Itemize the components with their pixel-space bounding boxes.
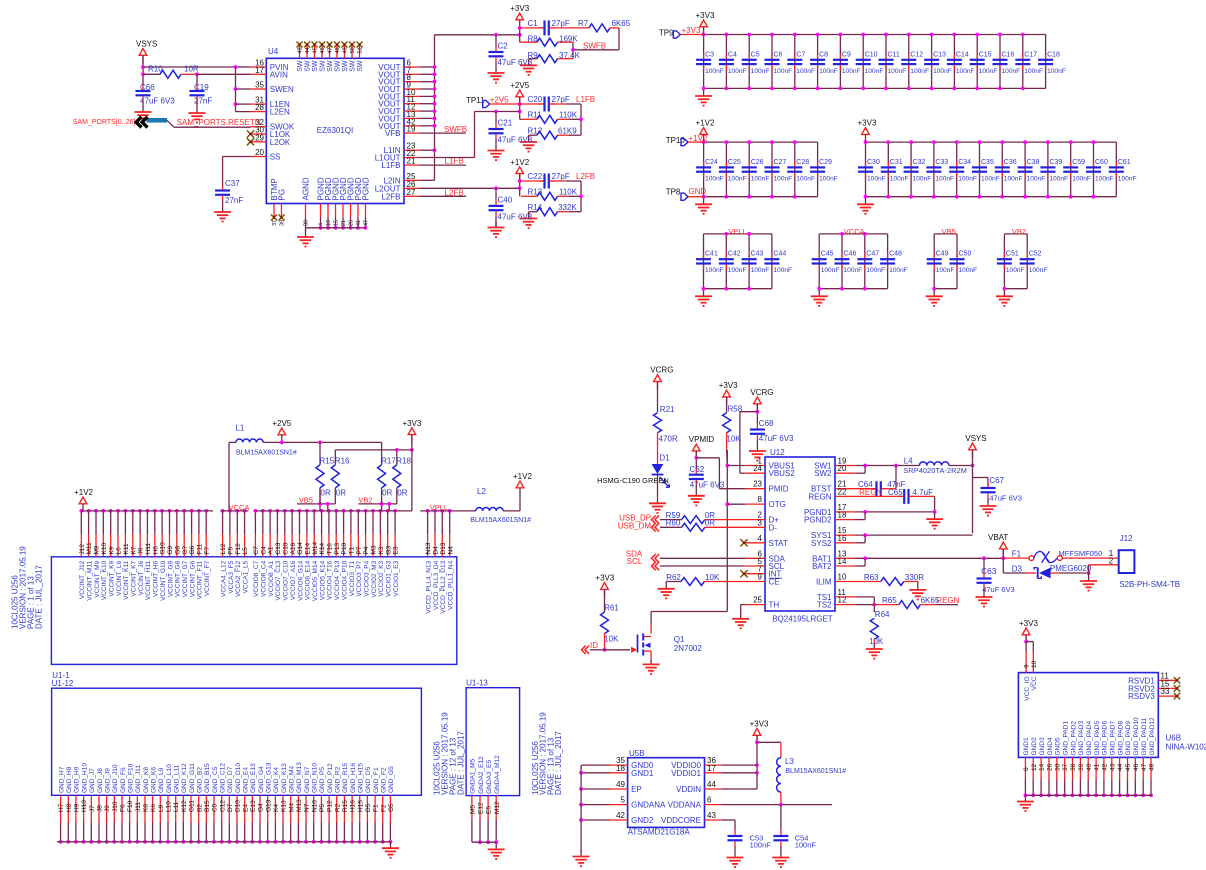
svg-text:C5: C5 xyxy=(212,803,219,812)
svg-text:L5: L5 xyxy=(242,547,249,555)
svg-text:BLM15AX601SN1#: BLM15AX601SN1# xyxy=(470,517,531,524)
svg-text:VFB: VFB xyxy=(385,129,401,138)
svg-text:GND_J7: GND_J7 xyxy=(89,768,96,793)
svg-text:BQ24195LRGET: BQ24195LRGET xyxy=(772,615,833,624)
svg-text:50: 50 xyxy=(350,47,356,53)
svg-text:C21: C21 xyxy=(498,119,513,128)
svg-text:C11: C11 xyxy=(888,51,900,58)
svg-text:47: 47 xyxy=(328,47,334,53)
svg-text:VCC: VCC xyxy=(1031,676,1038,690)
svg-text:SWEN: SWEN xyxy=(270,85,294,94)
svg-text:K8: K8 xyxy=(143,804,150,812)
svg-text:0R: 0R xyxy=(705,519,715,528)
svg-text:SAM_PORTS.RESETN: SAM_PORTS.RESETN xyxy=(177,118,261,127)
svg-text:F5: F5 xyxy=(228,547,235,555)
svg-text:VCRG: VCRG xyxy=(650,366,673,375)
svg-text:GND_F1: GND_F1 xyxy=(373,767,380,793)
svg-text:SW: SW xyxy=(342,60,349,72)
svg-text:ID: ID xyxy=(590,641,598,650)
svg-text:47uF 6V3: 47uF 6V3 xyxy=(759,434,794,443)
svg-text:GND_M4: GND_M4 xyxy=(289,766,296,793)
svg-text:45: 45 xyxy=(313,47,319,53)
svg-text:18: 18 xyxy=(616,764,625,773)
svg-text:48: 48 xyxy=(335,47,341,53)
svg-text:C25: C25 xyxy=(728,159,741,166)
svg-text:GND_K4: GND_K4 xyxy=(273,767,280,793)
svg-text:100nF: 100nF xyxy=(751,267,770,274)
svg-text:+1V2: +1V2 xyxy=(74,488,93,497)
svg-text:VCCA2_F12: VCCA2_F12 xyxy=(235,560,242,597)
svg-text:T16: T16 xyxy=(327,543,334,555)
svg-text:100nF: 100nF xyxy=(751,68,770,75)
svg-text:C31: C31 xyxy=(890,159,903,166)
svg-text:VCCINT_K10: VCCINT_K10 xyxy=(101,560,108,600)
svg-text:GND_D5: GND_D5 xyxy=(365,766,372,793)
svg-text:GND_PAD6: GND_PAD6 xyxy=(1102,721,1109,756)
svg-text:SW: SW xyxy=(350,60,357,72)
svg-text:SW: SW xyxy=(297,60,304,72)
svg-text:C37: C37 xyxy=(225,179,240,188)
svg-text:B2: B2 xyxy=(196,804,203,812)
svg-text:GND_H16: GND_H16 xyxy=(350,763,357,793)
svg-text:VCCIO3_P7: VCCIO3_P7 xyxy=(356,560,363,596)
svg-text:28: 28 xyxy=(255,103,264,112)
svg-text:R15: R15 xyxy=(342,800,349,812)
svg-text:VPMID: VPMID xyxy=(689,435,715,444)
svg-text:VCCIO4_P10: VCCIO4_P10 xyxy=(341,560,348,600)
svg-text:L1FB: L1FB xyxy=(576,95,595,104)
svg-text:R17: R17 xyxy=(381,457,396,466)
svg-text:L2EN: L2EN xyxy=(270,108,290,117)
svg-text:T1: T1 xyxy=(349,547,356,555)
svg-text:47uF 6V3: 47uF 6V3 xyxy=(498,135,533,144)
svg-text:GND_H10: GND_H10 xyxy=(81,763,88,793)
svg-text:VCCINT_F7: VCCINT_F7 xyxy=(204,560,211,596)
svg-text:D4: D4 xyxy=(433,546,440,555)
svg-text:F1: F1 xyxy=(1012,550,1022,559)
svg-text:10: 10 xyxy=(326,220,332,226)
svg-text:DATE : JUL_2017: DATE : JUL_2017 xyxy=(35,565,44,629)
svg-text:0R: 0R xyxy=(397,488,407,497)
svg-text:+3V3: +3V3 xyxy=(595,574,614,583)
svg-text:G9: G9 xyxy=(167,545,174,554)
svg-text:R63: R63 xyxy=(864,573,879,582)
svg-text:4: 4 xyxy=(758,534,763,543)
svg-text:+3V3: +3V3 xyxy=(402,419,421,428)
svg-text:U1-12: U1-12 xyxy=(52,679,74,688)
svg-text:C61: C61 xyxy=(1118,159,1131,166)
svg-text:GNDA1_M5: GNDA1_M5 xyxy=(470,758,477,793)
svg-text:SRP4020TA-2R2M: SRP4020TA-2R2M xyxy=(903,466,967,475)
svg-text:VCCIO8_A1: VCCIO8_A1 xyxy=(268,560,275,596)
svg-text:38: 38 xyxy=(304,220,310,226)
svg-text:VCCIO6_E14: VCCIO6_E14 xyxy=(305,560,312,600)
svg-text:VCCD_PLL4_N13: VCCD_PLL4_N13 xyxy=(425,560,432,613)
svg-text:L1: L1 xyxy=(235,424,244,433)
svg-text:C35: C35 xyxy=(981,159,994,166)
svg-text:+3V3: +3V3 xyxy=(858,119,877,128)
svg-text:100nF: 100nF xyxy=(728,68,747,75)
svg-text:ATSAMD21G18A: ATSAMD21G18A xyxy=(628,828,691,837)
svg-text:VCCINT_L6: VCCINT_L6 xyxy=(116,560,123,595)
svg-text:E5: E5 xyxy=(486,806,493,814)
svg-text:16: 16 xyxy=(838,534,847,543)
svg-text:C12: C12 xyxy=(910,51,923,58)
svg-text:VCCD_PLL2_D13: VCCD_PLL2_D13 xyxy=(440,560,447,613)
svg-text:VCCIO3_T1: VCCIO3_T1 xyxy=(349,560,356,596)
svg-text:GND_H9: GND_H9 xyxy=(74,766,81,793)
svg-text:VCCINT_J12: VCCINT_J12 xyxy=(79,560,86,599)
svg-text:6K65: 6K65 xyxy=(612,19,631,28)
svg-text:J12: J12 xyxy=(79,544,86,555)
svg-text:E13: E13 xyxy=(250,800,257,812)
svg-text:+2V5: +2V5 xyxy=(272,419,291,428)
svg-text:VCCIO1_G3: VCCIO1_G3 xyxy=(386,560,393,597)
svg-text:100nF: 100nF xyxy=(1004,175,1023,182)
svg-text:C13: C13 xyxy=(275,542,282,554)
svg-text:BLM15AX601SN1#: BLM15AX601SN1# xyxy=(236,449,297,456)
svg-text:G6: G6 xyxy=(189,545,196,554)
svg-text:R61: R61 xyxy=(604,604,619,613)
svg-text:VCCIO6_G14: VCCIO6_G14 xyxy=(297,560,304,600)
svg-text:100nF: 100nF xyxy=(751,175,770,182)
svg-text:VCCIO2_K3: VCCIO2_K3 xyxy=(378,560,385,596)
svg-text:GNDA3_E5: GNDA3_E5 xyxy=(486,760,493,794)
svg-text:USB_DM: USB_DM xyxy=(618,521,652,530)
svg-text:F7: F7 xyxy=(204,547,211,555)
svg-text:K13: K13 xyxy=(281,800,288,812)
svg-text:C7: C7 xyxy=(253,546,260,555)
svg-text:GND_K8: GND_K8 xyxy=(143,767,150,793)
svg-text:C9: C9 xyxy=(842,51,851,58)
svg-text:E4: E4 xyxy=(242,804,249,812)
svg-text:47uF 6V3: 47uF 6V3 xyxy=(690,480,725,489)
svg-text:GND_PAD2: GND_PAD2 xyxy=(1070,721,1077,756)
svg-text:GND2: GND2 xyxy=(1031,737,1038,755)
svg-text:VCCINT_G8: VCCINT_G8 xyxy=(175,560,182,597)
svg-text:U4: U4 xyxy=(268,47,279,56)
svg-text:42: 42 xyxy=(616,811,625,820)
svg-text:GND_K6: GND_K6 xyxy=(150,767,157,793)
svg-text:L2: L2 xyxy=(477,487,486,496)
svg-text:30: 30 xyxy=(1054,763,1061,771)
svg-text:VCCINT_H6: VCCINT_H6 xyxy=(153,560,160,597)
svg-text:VCCINT_M9: VCCINT_M9 xyxy=(94,560,101,597)
svg-text:M9: M9 xyxy=(94,545,101,554)
svg-text:GND_G13: GND_G13 xyxy=(266,762,273,793)
svg-text:27pF: 27pF xyxy=(552,19,570,28)
svg-text:R7: R7 xyxy=(578,19,589,28)
svg-text:STAT: STAT xyxy=(769,539,788,548)
svg-text:VBUS2: VBUS2 xyxy=(769,469,796,478)
svg-text:VDDANA: VDDANA xyxy=(668,801,702,810)
svg-text:29: 29 xyxy=(255,133,264,142)
svg-text:SCL: SCL xyxy=(627,557,643,566)
svg-text:VCCINT_K11: VCCINT_K11 xyxy=(123,560,130,599)
svg-text:G8: G8 xyxy=(174,545,181,554)
svg-text:14: 14 xyxy=(1039,763,1046,771)
svg-text:100nF: 100nF xyxy=(1029,267,1048,274)
svg-text:L1FB: L1FB xyxy=(381,161,400,170)
svg-text:GNDANA: GNDANA xyxy=(631,801,666,810)
svg-text:GND_C12: GND_C12 xyxy=(220,763,227,793)
svg-text:G4: G4 xyxy=(258,803,265,812)
svg-text:SWFB: SWFB xyxy=(444,125,467,134)
svg-text:DATE : JUL_2017: DATE : JUL_2017 xyxy=(554,731,563,795)
svg-text:R65: R65 xyxy=(882,596,897,605)
svg-text:37: 37 xyxy=(272,220,278,226)
svg-text:100nF: 100nF xyxy=(819,175,838,182)
svg-text:MFFSMF050: MFFSMF050 xyxy=(1059,549,1103,558)
svg-text:GND_E13: GND_E13 xyxy=(250,763,257,793)
svg-text:49: 49 xyxy=(343,47,349,53)
svg-text:B15: B15 xyxy=(204,800,211,812)
svg-text:G7: G7 xyxy=(182,545,189,554)
svg-text:EZ6301QI: EZ6301QI xyxy=(317,126,353,135)
svg-text:J10: J10 xyxy=(112,801,119,812)
svg-text:C13: C13 xyxy=(933,51,946,58)
svg-text:39: 39 xyxy=(280,220,286,226)
svg-text:VCCIO8_C7: VCCIO8_C7 xyxy=(253,560,260,597)
svg-text:BLM15AX601SN1#: BLM15AX601SN1# xyxy=(785,768,846,775)
svg-text:GND3: GND3 xyxy=(1039,737,1046,755)
svg-text:D10: D10 xyxy=(235,800,242,812)
svg-text:VB2: VB2 xyxy=(1012,227,1026,236)
svg-text:100nF: 100nF xyxy=(890,175,909,182)
svg-text:C4: C4 xyxy=(728,51,737,58)
svg-text:C7: C7 xyxy=(796,51,805,58)
svg-text:C32: C32 xyxy=(913,159,926,166)
svg-text:DATE : JUL_2017: DATE : JUL_2017 xyxy=(457,731,466,795)
svg-text:+1V2: +1V2 xyxy=(689,134,708,143)
svg-text:100nF: 100nF xyxy=(959,267,978,274)
svg-text:TS2: TS2 xyxy=(817,601,832,610)
svg-text:+3V3: +3V3 xyxy=(696,11,715,20)
svg-text:VCCIO1_E3: VCCIO1_E3 xyxy=(393,560,400,596)
svg-text:VCCIO4_P13: VCCIO4_P13 xyxy=(334,560,341,600)
svg-text:A1: A1 xyxy=(268,546,275,554)
svg-text:TP9: TP9 xyxy=(659,28,674,37)
svg-text:C24: C24 xyxy=(705,159,718,166)
svg-text:K12: K12 xyxy=(181,800,188,812)
svg-text:GND_PAD4: GND_PAD4 xyxy=(1086,721,1093,756)
svg-text:C60: C60 xyxy=(1095,159,1108,166)
svg-text:12: 12 xyxy=(838,596,847,605)
svg-text:L4: L4 xyxy=(904,456,913,465)
svg-text:GND_PAD12: GND_PAD12 xyxy=(1149,717,1156,756)
svg-text:TP10: TP10 xyxy=(666,136,686,145)
svg-text:VCC_IO: VCC_IO xyxy=(1024,677,1031,701)
svg-text:VCCINT_G9: VCCINT_G9 xyxy=(167,560,174,597)
svg-text:GND_G11: GND_G11 xyxy=(189,763,196,793)
svg-text:REGN: REGN xyxy=(936,596,959,605)
svg-text:BAT2: BAT2 xyxy=(812,562,832,571)
svg-text:38: 38 xyxy=(1070,763,1077,771)
svg-text:GND4: GND4 xyxy=(1047,737,1054,755)
svg-text:D5: D5 xyxy=(365,803,372,812)
svg-text:M4: M4 xyxy=(288,803,295,812)
svg-text:332K: 332K xyxy=(558,203,577,212)
svg-text:VCCIO5_M14: VCCIO5_M14 xyxy=(312,560,319,601)
svg-text:D7: D7 xyxy=(227,803,234,812)
svg-text:100nF: 100nF xyxy=(935,175,954,182)
svg-text:+3V3: +3V3 xyxy=(719,381,738,390)
svg-text:C45: C45 xyxy=(821,251,834,258)
svg-text:H15: H15 xyxy=(357,800,364,812)
svg-text:J9: J9 xyxy=(104,805,111,812)
svg-text:GND_PAD1: GND_PAD1 xyxy=(1063,721,1070,756)
svg-text:100nF: 100nF xyxy=(1072,175,1091,182)
svg-text:100nF: 100nF xyxy=(842,68,861,75)
svg-text:18: 18 xyxy=(838,511,847,520)
svg-text:GND_K13: GND_K13 xyxy=(281,763,288,793)
svg-text:35: 35 xyxy=(255,81,264,90)
svg-text:PMEG6020: PMEG6020 xyxy=(1050,564,1092,573)
svg-text:VSYS: VSYS xyxy=(136,40,157,49)
svg-text:20: 20 xyxy=(838,464,847,473)
svg-text:100nF: 100nF xyxy=(866,267,885,274)
svg-text:C12: C12 xyxy=(219,800,226,812)
svg-text:C51: C51 xyxy=(1006,251,1019,258)
svg-text:J7: J7 xyxy=(89,805,96,812)
svg-text:R64: R64 xyxy=(875,610,890,619)
svg-text:VCCA: VCCA xyxy=(844,227,865,236)
svg-text:TH: TH xyxy=(769,601,780,610)
svg-text:GND_L11: GND_L11 xyxy=(174,764,181,793)
svg-text:GND_F6: GND_F6 xyxy=(120,767,127,793)
svg-text:D3: D3 xyxy=(1012,564,1023,573)
svg-text:VPLL: VPLL xyxy=(728,227,746,236)
svg-text:M14: M14 xyxy=(312,541,319,554)
svg-text:43: 43 xyxy=(707,811,716,820)
svg-text:VCCA: VCCA xyxy=(229,503,250,512)
svg-text:REGN: REGN xyxy=(859,488,882,497)
svg-text:C5: C5 xyxy=(751,51,760,58)
svg-text:C28: C28 xyxy=(796,159,809,166)
svg-text:N10: N10 xyxy=(311,800,318,812)
svg-text:C29: C29 xyxy=(819,159,832,166)
svg-text:27pF: 27pF xyxy=(552,172,570,181)
svg-text:9: 9 xyxy=(758,573,763,582)
svg-text:100nF: 100nF xyxy=(1049,175,1068,182)
svg-text:GND_G5: GND_G5 xyxy=(388,766,395,793)
svg-text:P12: P12 xyxy=(327,800,334,812)
svg-text:100nF: 100nF xyxy=(774,68,793,75)
svg-text:VCCIO7_C10: VCCIO7_C10 xyxy=(283,560,290,600)
svg-text:49: 49 xyxy=(616,780,625,789)
svg-text:VPLL: VPLL xyxy=(430,503,448,512)
svg-text:C17: C17 xyxy=(1024,51,1037,58)
svg-text:C46: C46 xyxy=(844,251,857,258)
svg-text:GND_B15: GND_B15 xyxy=(204,763,211,793)
svg-text:K11: K11 xyxy=(123,543,130,554)
svg-text:PGND2: PGND2 xyxy=(804,516,832,525)
svg-text:R21: R21 xyxy=(660,405,675,414)
svg-text:GND_PAD9: GND_PAD9 xyxy=(1125,721,1132,756)
svg-text:41: 41 xyxy=(1094,763,1101,771)
svg-text:+1V2: +1V2 xyxy=(696,119,715,128)
svg-text:100nF: 100nF xyxy=(705,267,724,274)
svg-text:RSDV3: RSDV3 xyxy=(1128,692,1155,701)
svg-text:P7: P7 xyxy=(356,546,363,554)
svg-text:GND_N7: GND_N7 xyxy=(304,766,311,793)
svg-text:26: 26 xyxy=(1047,763,1054,771)
svg-text:H10: H10 xyxy=(81,800,88,812)
svg-text:M12: M12 xyxy=(494,801,501,814)
svg-text:VCCA4_L12: VCCA4_L12 xyxy=(220,560,227,597)
svg-text:C50: C50 xyxy=(959,251,972,258)
svg-text:D13: D13 xyxy=(440,542,447,554)
svg-text:G10: G10 xyxy=(160,542,167,555)
svg-text:C41: C41 xyxy=(705,251,718,258)
svg-text:8: 8 xyxy=(758,495,763,504)
svg-text:VCCIO7_C13: VCCIO7_C13 xyxy=(275,560,282,600)
svg-text:37: 37 xyxy=(1062,763,1069,771)
svg-text:4: 4 xyxy=(319,223,325,226)
svg-text:47uF 6V3: 47uF 6V3 xyxy=(498,212,533,221)
svg-text:L9: L9 xyxy=(158,804,165,812)
svg-text:H6: H6 xyxy=(152,546,159,555)
svg-text:F6: F6 xyxy=(120,804,127,812)
svg-text:C36: C36 xyxy=(1004,159,1017,166)
svg-text:100nF: 100nF xyxy=(1006,267,1025,274)
svg-text:GND_R2: GND_R2 xyxy=(335,766,342,793)
svg-text:NINA-W102: NINA-W102 xyxy=(1166,742,1206,751)
svg-text:VCCIO2_M3: VCCIO2_M3 xyxy=(371,560,378,597)
svg-text:S2B-PH-SM4-TB: S2B-PH-SM4-TB xyxy=(1119,580,1180,589)
svg-text:15: 15 xyxy=(334,220,340,226)
svg-text:C40: C40 xyxy=(498,196,513,205)
svg-text:+1V2: +1V2 xyxy=(513,472,532,481)
svg-text:GND_C5: GND_C5 xyxy=(212,766,219,793)
svg-text:SS: SS xyxy=(270,153,281,162)
svg-text:C10: C10 xyxy=(282,542,289,554)
svg-text:L2FB: L2FB xyxy=(445,189,464,198)
svg-text:+3V3: +3V3 xyxy=(1019,619,1038,628)
svg-text:C1: C1 xyxy=(528,19,539,28)
svg-text:10: 10 xyxy=(1031,660,1038,668)
svg-text:23: 23 xyxy=(753,480,762,489)
svg-text:K14: K14 xyxy=(319,543,326,555)
svg-text:GND_L9: GND_L9 xyxy=(158,767,165,793)
svg-text:K10: K10 xyxy=(101,543,108,555)
svg-text:100nF: 100nF xyxy=(773,267,792,274)
svg-text:GND_J8: GND_J8 xyxy=(97,768,104,793)
svg-text:GND5: GND5 xyxy=(1055,737,1062,755)
svg-text:C22: C22 xyxy=(528,172,543,181)
svg-text:GND_J10: GND_J10 xyxy=(112,764,119,793)
svg-text:GND_H7: GND_H7 xyxy=(58,766,65,793)
svg-text:L2FB: L2FB xyxy=(381,192,400,201)
svg-text:A16: A16 xyxy=(290,543,297,555)
svg-text:P4: P4 xyxy=(363,546,370,554)
svg-text:GND1: GND1 xyxy=(1023,737,1030,755)
svg-text:44: 44 xyxy=(305,47,311,53)
svg-text:44: 44 xyxy=(1117,763,1124,771)
svg-text:L3: L3 xyxy=(785,757,794,766)
svg-text:GND2: GND2 xyxy=(631,816,654,825)
svg-text:TP8: TP8 xyxy=(666,188,681,197)
svg-text:VB2: VB2 xyxy=(358,496,372,505)
svg-text:GND_D10: GND_D10 xyxy=(235,763,242,793)
svg-text:GNDA4_M12: GNDA4_M12 xyxy=(494,755,501,794)
svg-text:U12: U12 xyxy=(770,448,785,457)
svg-text:C47: C47 xyxy=(866,251,879,258)
svg-text:VCCIO4_T16: VCCIO4_T16 xyxy=(327,560,334,599)
svg-text:SYS2: SYS2 xyxy=(811,539,832,548)
svg-text:100nF: 100nF xyxy=(867,175,886,182)
svg-text:GND_H15: GND_H15 xyxy=(358,763,365,793)
